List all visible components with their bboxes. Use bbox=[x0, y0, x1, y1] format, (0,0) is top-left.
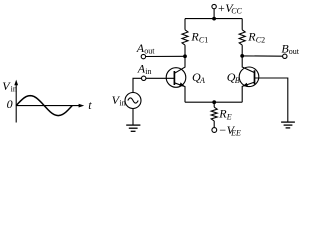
transistor QB collector bbox=[242, 56, 254, 73]
node RE junction bbox=[212, 100, 216, 104]
emitter bus wire bbox=[185, 101, 242, 103]
ground (source) bbox=[126, 125, 140, 131]
node A (collector QA) bbox=[183, 54, 187, 58]
voltage source sine symbol bbox=[128, 98, 138, 103]
transistor QA emitter bbox=[174, 83, 185, 102]
transistor QA circle bbox=[166, 68, 186, 88]
transistor QB emitter bbox=[242, 82, 254, 102]
wire source top to Ain corner bbox=[133, 78, 142, 92]
svg-text:out: out bbox=[289, 47, 300, 56]
svg-text:E: E bbox=[226, 112, 232, 121]
svg-text:in: in bbox=[145, 67, 151, 76]
transistor QB base bar bbox=[254, 70, 256, 84]
terminal -VEE circle bbox=[212, 128, 217, 133]
top supply rail bbox=[185, 18, 242, 20]
svg-text:0: 0 bbox=[7, 97, 13, 111]
transistor QA base bar bbox=[173, 71, 175, 85]
wire node B to Bout bbox=[242, 55, 283, 57]
waveform plot horizontal axis bbox=[16, 105, 80, 107]
svg-text:1: 1 bbox=[204, 35, 208, 44]
transistor QA collector bbox=[174, 56, 185, 73]
resistor RE bbox=[211, 102, 217, 127]
terminal Bout circle bbox=[283, 54, 287, 58]
transistor QB emitter arrow bbox=[242, 83, 248, 87]
svg-text:B: B bbox=[235, 76, 240, 85]
svg-text:2: 2 bbox=[261, 35, 265, 44]
node VCC junction bbox=[212, 17, 216, 21]
sine waveform bbox=[16, 96, 72, 116]
resistor RC1 bbox=[182, 19, 188, 57]
svg-text:A: A bbox=[199, 76, 205, 85]
node B (collector QB) bbox=[240, 54, 244, 58]
svg-text:EE: EE bbox=[230, 129, 241, 138]
wire node A to Aout bbox=[146, 55, 185, 57]
terminal Ain circle bbox=[142, 76, 146, 80]
svg-text:in: in bbox=[11, 84, 17, 93]
transistor QB circle bbox=[239, 67, 259, 87]
resistor RC2 bbox=[239, 19, 245, 56]
transistor QA emitter arrow bbox=[179, 82, 185, 86]
waveform plot horizontal axis arrowhead bbox=[79, 104, 85, 108]
wire Ain to QA base bbox=[146, 77, 175, 79]
waveform plot vertical axis bbox=[15, 84, 17, 123]
waveform plot vertical axis arrowhead bbox=[14, 80, 18, 86]
svg-text:t: t bbox=[88, 98, 92, 112]
wire source bottom to ground bbox=[132, 109, 134, 125]
ground (QB base) bbox=[281, 122, 295, 128]
terminal +VCC circle bbox=[212, 4, 216, 8]
svg-text:in: in bbox=[120, 99, 126, 108]
voltage source Vin circle bbox=[125, 93, 141, 109]
terminal Aout circle bbox=[141, 54, 145, 58]
wire VCC stub bbox=[213, 9, 215, 19]
wire QB base to ground bbox=[255, 78, 288, 122]
svg-text:out: out bbox=[144, 47, 155, 56]
svg-text:CC: CC bbox=[231, 7, 242, 16]
